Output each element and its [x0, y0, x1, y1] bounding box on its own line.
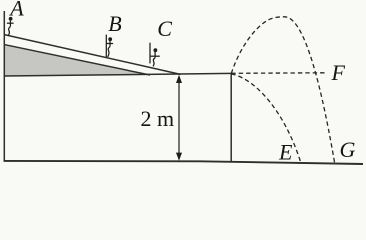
ramp surface line	[4, 35, 180, 75]
svg-text:2 m: 2 m	[141, 106, 175, 131]
svg-text:B: B	[108, 11, 121, 36]
horizontal dashed line to F	[231, 72, 326, 75]
cliff edge vertical line	[230, 73, 232, 162]
2m arrow shaft	[178, 80, 180, 156]
svg-text:F: F	[331, 60, 346, 85]
hill top edge	[4, 45, 150, 75]
svg-text:E: E	[278, 140, 293, 165]
trajectory to E	[231, 74, 300, 163]
2m arrow bottom head	[176, 153, 182, 161]
skier B	[106, 35, 113, 58]
skier C	[150, 43, 160, 67]
svg-text:A: A	[8, 0, 24, 20]
skier A	[7, 17, 14, 35]
ground line	[4, 161, 364, 164]
left border line	[3, 11, 5, 161]
platform top line	[4, 73, 232, 76]
trajectory up-and-over to G	[231, 17, 334, 164]
hill fill	[4, 45, 150, 76]
2m arrow top head	[176, 75, 182, 83]
svg-text:G: G	[340, 137, 356, 162]
svg-text:C: C	[157, 16, 172, 41]
